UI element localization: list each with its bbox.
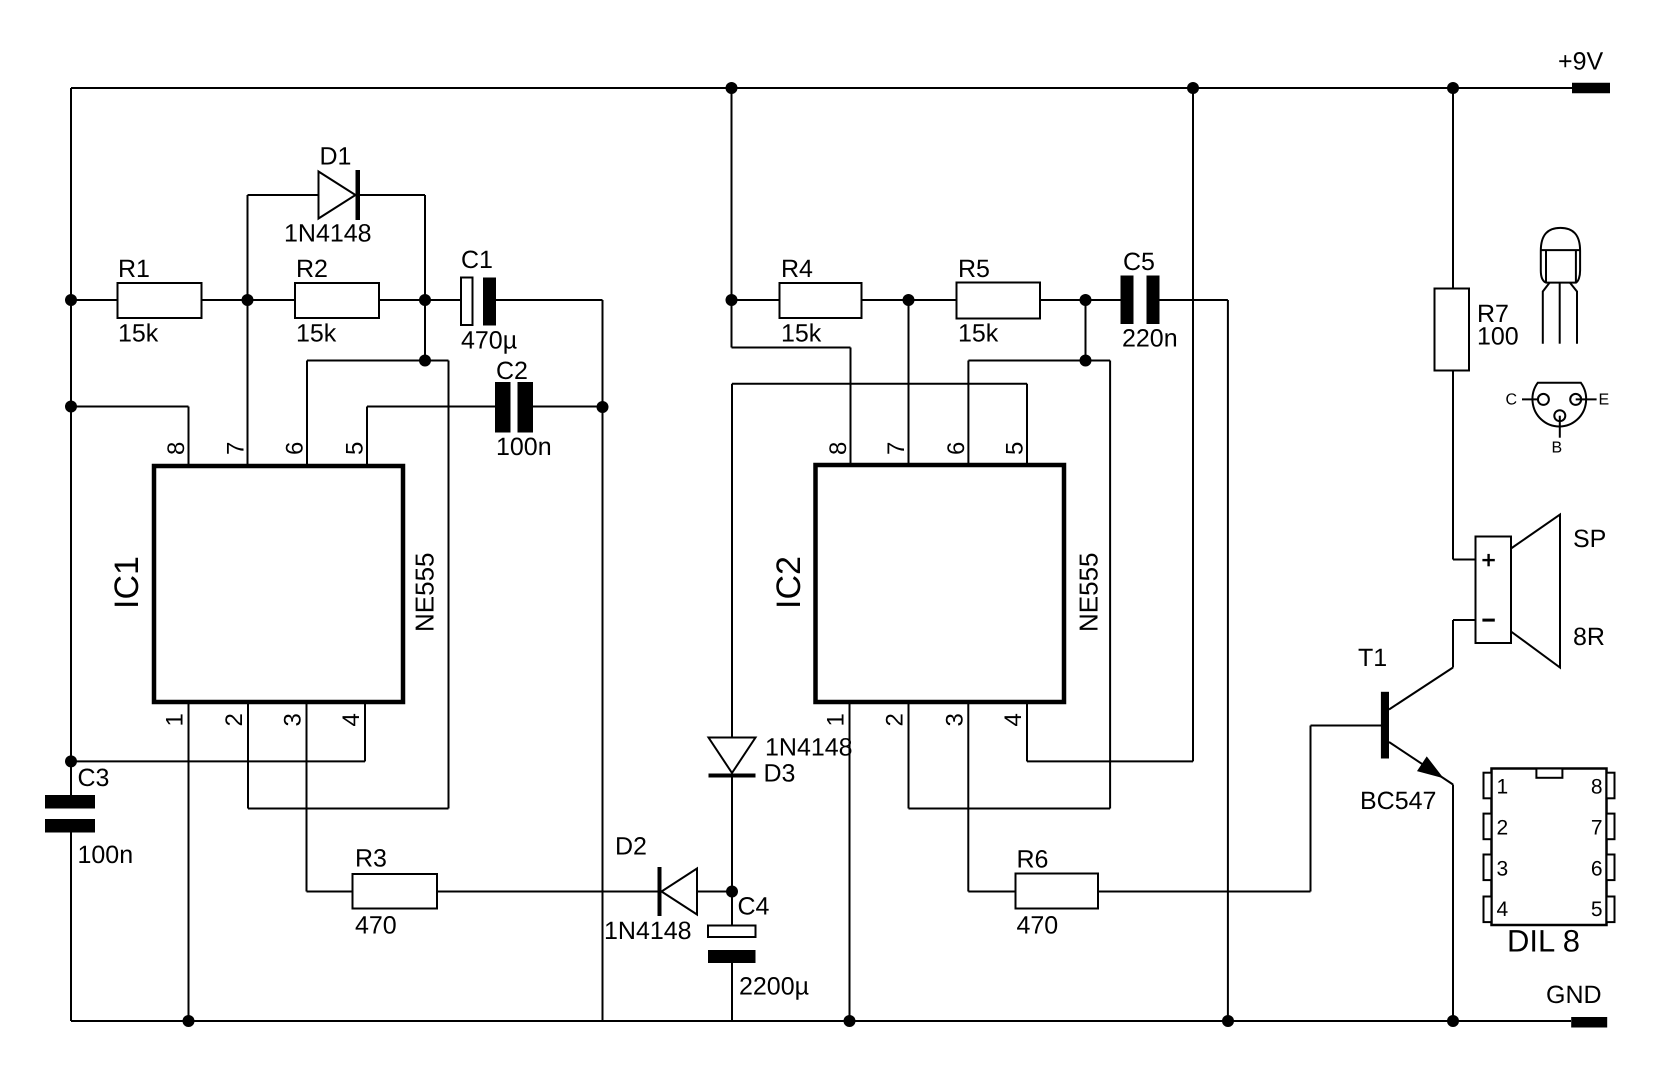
wire R2 right lead to C1 <box>379 299 461 301</box>
pinout pin B circle <box>1554 410 1565 421</box>
svg-text:7: 7 <box>1591 816 1603 839</box>
resistor R6 body <box>1016 874 1099 909</box>
wire D3 cathode to C4 node <box>731 777 733 926</box>
DIL 8 right pin stub 7 <box>1607 814 1615 840</box>
node junction pin6 IC2 line <box>1080 355 1092 367</box>
svg-text:7: 7 <box>223 442 250 455</box>
diode D1 cathode bar <box>356 170 361 220</box>
wire pin 8 IC2 vertical <box>850 348 852 466</box>
resistor R4 body <box>780 283 862 318</box>
DIL 8 right pin stub 5 <box>1607 897 1615 923</box>
wire R3 right lead to D2 <box>437 891 658 893</box>
TO-92 collar line <box>1541 249 1580 251</box>
svg-text:470: 470 <box>355 912 397 940</box>
svg-text:100: 100 <box>1477 323 1519 351</box>
node junction ground rail / T1 emitter <box>1447 1015 1459 1027</box>
pinout pin C circle <box>1538 394 1549 405</box>
svg-text:100n: 100n <box>78 841 134 869</box>
wire pin 8 IC1 vertical <box>188 407 190 467</box>
wire R7 bottom lead <box>1452 371 1454 560</box>
speaker plus sign vertical <box>1487 554 1489 566</box>
svg-text:C1: C1 <box>461 246 493 274</box>
wire pin 4 IC2 vertical <box>1026 702 1028 761</box>
resistor R1 body <box>118 283 202 318</box>
DIL 8 right pin stub 6 <box>1607 855 1615 881</box>
svg-text:NE555: NE555 <box>1073 553 1103 633</box>
svg-text:C2: C2 <box>496 357 528 385</box>
wire T1 emitter vertical to ground <box>1452 785 1454 1022</box>
wire pin 5 IC2 horizontal to D3 <box>732 383 1027 385</box>
node junction ground rail / pin 1 IC2 <box>844 1015 856 1027</box>
pinout B lead <box>1559 416 1561 438</box>
wire pin 6 IC1 horizontal <box>307 360 449 362</box>
svg-text:+9V: +9V <box>1558 48 1604 76</box>
wire C4 bottom lead to ground <box>731 963 733 1021</box>
wire pin 4 IC1 horizontal to +9V rail <box>71 760 365 762</box>
node junction C2 right / ground vertical <box>597 401 609 413</box>
svg-text:1: 1 <box>162 713 189 726</box>
capacitor C3 top plate <box>45 795 95 809</box>
resistor R3 body <box>353 874 438 909</box>
capacitor C5 left plate <box>1121 276 1134 325</box>
wire left rail (lower, C3 to ground) <box>70 833 72 1022</box>
wire C5 right lead <box>1160 299 1228 301</box>
pinout E lead <box>1576 398 1597 400</box>
svg-text:IC1: IC1 <box>108 556 146 609</box>
diode D3 cathode bar <box>709 774 756 778</box>
wire R3 left lead <box>307 891 353 893</box>
wire pin 2 IC2 horizontal <box>909 808 1111 810</box>
DIL 8 notch <box>1536 769 1562 778</box>
TO-92 lead left <box>1543 283 1550 344</box>
+9V supply terminal bar <box>1572 83 1610 94</box>
wire pin 3 IC1 vertical <box>306 702 308 892</box>
svg-text:R5: R5 <box>958 255 990 283</box>
wire D1 cathode vertical to R2 output <box>424 195 426 300</box>
wire pin 6 IC1 vertical <box>306 361 308 467</box>
wire R1 to R2 (pin 7 node) <box>202 299 296 301</box>
svg-text:1: 1 <box>1497 775 1509 798</box>
svg-text:NE555: NE555 <box>410 553 440 633</box>
svg-text:DIL 8: DIL 8 <box>1507 924 1580 959</box>
wire pin 1 IC2 vertical to ground <box>849 702 851 1021</box>
wire pin 5 IC1 to C2 left <box>367 406 495 408</box>
DIL 8 left pin stub 2 <box>1484 814 1492 840</box>
wire pin 1 IC1 vertical to ground <box>188 702 190 1021</box>
svg-text:R3: R3 <box>355 845 387 873</box>
svg-text:5: 5 <box>1591 898 1603 921</box>
svg-text:6: 6 <box>282 442 309 455</box>
wire T1 base vertical <box>1310 726 1312 892</box>
wire pin 3 IC2 vertical <box>967 702 969 892</box>
svg-text:C4: C4 <box>738 893 770 921</box>
wire +9V branch vertical to pin 4 IC2 <box>1192 88 1194 761</box>
wire C2 right lead <box>533 406 603 408</box>
wire R7 top lead from +9V rail <box>1452 88 1454 289</box>
capacitor C4 negative plate (filled) <box>708 950 756 963</box>
svg-text:SP: SP <box>1573 525 1606 553</box>
node junction top rail / R7 branch <box>1447 82 1459 94</box>
svg-text:R1: R1 <box>118 255 150 283</box>
op-amp/timer IC2 body <box>816 465 1065 702</box>
svg-text:2: 2 <box>221 713 248 726</box>
wire T1 collector vertical <box>1452 620 1454 668</box>
svg-text:R2: R2 <box>296 255 328 283</box>
node junction R4/R5/pin7 IC2 <box>903 294 915 306</box>
wire T1 emitter diagonal <box>1389 742 1453 785</box>
svg-text:4: 4 <box>338 713 365 726</box>
DIL 8 body <box>1492 769 1607 926</box>
wire pin 4 IC1 vertical <box>364 702 366 761</box>
svg-text:8: 8 <box>1591 775 1603 798</box>
TO-92 lead right <box>1570 283 1577 344</box>
svg-text:GND: GND <box>1546 981 1602 1009</box>
transistor T1 base bar <box>1381 692 1389 759</box>
speaker SP body <box>1476 537 1512 644</box>
DIL 8 right pin stub 8 <box>1607 773 1615 799</box>
wire pin 7 IC1 vertical (includes D1 anode branch) <box>247 195 249 466</box>
svg-text:1N4148: 1N4148 <box>604 917 692 945</box>
svg-text:7: 7 <box>883 442 910 455</box>
wire pin 8 IC1 horizontal <box>71 406 189 408</box>
diode D2 triangle <box>662 869 698 915</box>
node junction R5/C5 <box>1080 294 1092 306</box>
wire pin 7 IC2 vertical <box>908 300 910 465</box>
svg-text:100n: 100n <box>496 433 552 461</box>
svg-text:D2: D2 <box>615 833 647 861</box>
resistor R2 body <box>295 283 379 318</box>
wire +9V top rail <box>71 87 1572 89</box>
resistor R5 body <box>957 283 1041 319</box>
svg-text:2200µ: 2200µ <box>739 973 809 1001</box>
svg-text:3: 3 <box>941 713 968 726</box>
node junction ground rail / pin 1 IC1 <box>183 1015 195 1027</box>
wire R4 left lead <box>732 299 780 301</box>
svg-text:E: E <box>1599 392 1610 409</box>
wire pin 5 IC1 vertical <box>366 407 368 467</box>
wire D1 cathode lead <box>360 194 425 196</box>
node junction left rail / R1 <box>65 294 77 306</box>
svg-text:4: 4 <box>1000 713 1027 726</box>
svg-text:470: 470 <box>1017 912 1059 940</box>
wire T1 base lead <box>1311 725 1382 727</box>
wire D3 anode vertical <box>731 384 733 738</box>
node junction ground rail / C5 vertical <box>1222 1015 1234 1027</box>
wire node R5/C5 down to pin 6 line <box>1085 300 1087 361</box>
wire VCC horizontal to pin 8 IC2 <box>732 347 851 349</box>
diode D3 triangle <box>709 738 756 774</box>
svg-text:C5: C5 <box>1123 248 1155 276</box>
node junction top rail / pin4 IC2 branch <box>1187 82 1199 94</box>
op-amp/timer IC1 body <box>154 466 403 702</box>
DIL 8 left pin stub 4 <box>1484 897 1492 923</box>
capacitor C1 negative plate (filled) <box>483 278 496 326</box>
DIL 8 left pin stub 3 <box>1484 855 1492 881</box>
svg-text:C3: C3 <box>78 764 110 792</box>
node junction +9V branch / R4 <box>726 294 738 306</box>
pinout pin E circle <box>1570 394 1581 405</box>
transistor T1 emitter arrowhead <box>1419 758 1441 776</box>
node junction R1/R2/pin7 IC1 <box>242 294 254 306</box>
svg-text:2: 2 <box>1497 816 1509 839</box>
svg-text:5: 5 <box>342 442 369 455</box>
svg-text:6: 6 <box>943 442 970 455</box>
wire node R2/C1 down to pin 6 line <box>424 300 426 361</box>
diode D2 cathode bar <box>658 867 662 916</box>
speaker minus sign <box>1482 619 1494 622</box>
capacitor C4 positive plate (open) <box>708 926 756 938</box>
svg-text:4: 4 <box>1497 898 1509 921</box>
DIL 8 left pin stub 1 <box>1484 773 1492 799</box>
wire C1 right lead <box>496 299 603 301</box>
svg-text:15k: 15k <box>781 320 822 348</box>
wire pin 5 IC2 vertical <box>1026 384 1028 465</box>
wire speaker plus lead <box>1453 559 1476 561</box>
svg-text:R4: R4 <box>781 255 813 283</box>
wire pin 4 IC2 horizontal <box>1027 760 1193 762</box>
svg-text:D1: D1 <box>320 143 352 171</box>
wire ground bottom rail <box>71 1020 1571 1022</box>
svg-text:2: 2 <box>882 713 909 726</box>
wire R6 left lead <box>968 891 1015 893</box>
TO-92 package outline <box>1541 228 1580 283</box>
node junction top rail / D3-R4 branch <box>726 82 738 94</box>
TO-92 face right edge <box>1575 250 1577 283</box>
svg-text:6: 6 <box>1591 857 1603 880</box>
diode D1 triangle <box>319 172 356 219</box>
wire T1 collector diagonal <box>1389 668 1453 710</box>
capacitor C2 right plate <box>518 382 534 433</box>
capacitor C2 left plate <box>495 382 511 433</box>
capacitor C1 positive plate (open) <box>461 278 473 326</box>
svg-text:1N4148: 1N4148 <box>765 734 853 762</box>
wire R4 to R5 (pin 7 IC2 node) <box>862 299 957 301</box>
wire pin 2 IC2 vertical <box>908 702 910 809</box>
wire pin 6 IC2 vertical <box>967 361 969 466</box>
wire pin6-pin2 connector vertical IC2 <box>1109 361 1111 809</box>
node junction R2/C1/D1 <box>419 294 431 306</box>
svg-text:BC547: BC547 <box>1360 787 1436 815</box>
svg-text:15k: 15k <box>118 320 159 348</box>
wire pin 2 IC1 horizontal <box>248 808 449 810</box>
wire pin6-pin2 connector vertical IC1 <box>448 361 450 809</box>
svg-text:B: B <box>1552 440 1563 457</box>
node junction left rail / pin 4 IC1 / C3 <box>65 755 77 767</box>
TO-92 face left edge <box>1545 250 1547 283</box>
wire C5 vertical down to ground rail <box>1227 300 1229 1021</box>
wire R6 right lead <box>1098 891 1311 893</box>
node junction pin6 IC1 line <box>419 355 431 367</box>
wire pin 6 IC2 horizontal <box>968 360 1110 362</box>
svg-text:D3: D3 <box>764 760 796 788</box>
wire D2 anode lead to node <box>697 891 732 893</box>
node junction left rail / pin 8 IC1 <box>65 401 77 413</box>
svg-text:C: C <box>1506 392 1518 409</box>
svg-text:220n: 220n <box>1122 325 1178 353</box>
capacitor C5 right plate <box>1147 276 1160 325</box>
wire +9V branch vertical to R4 node <box>731 88 733 348</box>
wire D1 anode lead <box>248 194 319 196</box>
svg-text:470µ: 470µ <box>461 327 517 355</box>
svg-text:15k: 15k <box>958 320 999 348</box>
svg-text:8: 8 <box>163 442 190 455</box>
ground terminal bar <box>1571 1017 1607 1028</box>
wire speaker minus lead <box>1453 619 1476 621</box>
svg-text:3: 3 <box>1497 857 1509 880</box>
svg-text:3: 3 <box>280 713 307 726</box>
wire left +9V rail (upper, above C3) <box>70 88 72 795</box>
svg-text:8R: 8R <box>1573 623 1605 651</box>
wire C1/C2 vertical down to ground rail <box>602 300 604 1021</box>
wire R1 left lead <box>71 299 118 301</box>
svg-text:R6: R6 <box>1017 846 1049 874</box>
wire R5 right lead to C5 <box>1040 299 1121 301</box>
TO-92 lead middle <box>1559 283 1561 344</box>
svg-text:8: 8 <box>825 442 852 455</box>
speaker plus sign horizontal <box>1482 559 1494 561</box>
svg-text:15k: 15k <box>296 320 337 348</box>
wire pin 2 IC1 vertical <box>247 702 249 809</box>
svg-text:IC2: IC2 <box>770 556 808 609</box>
svg-text:1N4148: 1N4148 <box>284 220 372 248</box>
resistor R7 body (vertical) <box>1435 289 1470 371</box>
svg-text:5: 5 <box>1002 442 1029 455</box>
svg-text:T1: T1 <box>1358 644 1387 672</box>
speaker SP horn <box>1511 515 1560 668</box>
pinout outline (flat-top circle) <box>1532 383 1586 427</box>
svg-text:1: 1 <box>823 713 850 726</box>
node junction D2/D3/C4 <box>726 886 738 898</box>
capacitor C3 bottom plate <box>45 819 95 833</box>
pinout C lead <box>1522 398 1539 400</box>
